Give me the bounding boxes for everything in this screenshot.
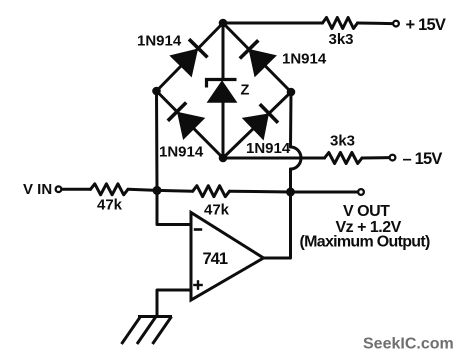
node L junction dot (bridge left) <box>152 87 161 96</box>
wire zener branch bottom (zener triangle to B) <box>222 101 225 158</box>
svg-text:(Maximum Output): (Maximum Output) <box>300 234 430 251</box>
wire R2 to -15V terminal <box>362 156 389 159</box>
svg-text:– 15V: – 15V <box>403 150 443 168</box>
diode D4 cathode bar <box>260 104 278 123</box>
wire left node L down to node J1 <box>155 91 159 190</box>
diode D4 1N914 (bottom-right) triangle <box>244 115 268 139</box>
zener diode Z triangle <box>208 82 236 103</box>
terminal V IN open circle <box>56 186 62 192</box>
wire zener branch top (T down to zener bar) <box>222 23 225 79</box>
svg-text:1N914: 1N914 <box>137 33 182 50</box>
svg-text:3k3: 3k3 <box>330 133 355 150</box>
svg-text:SeekIC.com: SeekIC.com <box>363 336 454 353</box>
wire node J2 to V OUT terminal <box>291 191 358 194</box>
terminal +15V open circle <box>393 21 399 27</box>
diode D3 1N914 (bottom-left) triangle <box>178 113 203 138</box>
wire V IN to 47k <box>62 188 91 191</box>
svg-text:+ 15V: + 15V <box>406 16 446 34</box>
wire bridge edge L-B <box>157 91 224 158</box>
wire R1 to +15V terminal <box>358 22 393 26</box>
wire hop (crossover bump over B-to-R2 wire) <box>291 147 302 169</box>
wire node J1 to R4 <box>157 189 193 193</box>
node R junction dot (bridge right) <box>287 88 296 97</box>
svg-text:1N914: 1N914 <box>159 144 204 161</box>
diode D3 cathode bar <box>168 103 186 121</box>
wire op-amp output to node J2 (up) <box>264 192 291 258</box>
node B junction dot (bridge bottom) <box>219 154 228 163</box>
terminal V OUT open circle <box>358 189 364 195</box>
zener cathode bar with bent end <box>207 80 237 88</box>
diode D1 1N914 (top-left) triangle <box>171 50 197 76</box>
wire R4 to node J2 <box>230 190 291 194</box>
resistor R2 3k3 (to -15V) <box>325 153 363 164</box>
wire bottom node to 3k3 (passes under hop) <box>223 157 325 160</box>
svg-text:1N914: 1N914 <box>246 140 291 157</box>
wire op-amp non-inverting input to ground <box>157 290 191 317</box>
wire hop top up to right node R <box>289 92 293 147</box>
resistor R1 3k3 (top, to +15V) <box>323 18 358 29</box>
wire J2 up to hop start <box>289 169 292 192</box>
wire J1 down and to op-amp inverting input <box>157 190 191 224</box>
svg-text:V OUT: V OUT <box>343 203 390 220</box>
wire top rail: top node to 3k3 <box>223 22 323 25</box>
op-amp U1 741 triangle <box>191 213 264 301</box>
diode D2 cathode bar <box>240 40 258 58</box>
node J2 junction dot (output node) <box>286 188 295 197</box>
diode D2 1N914 (top-right) triangle <box>250 50 275 75</box>
wire R3 to node J1 <box>128 189 157 190</box>
diode D1 cathode bar <box>189 39 208 57</box>
node T junction dot (bridge top) <box>219 19 228 28</box>
wire bridge edge R-B <box>223 92 291 158</box>
svg-text:V IN: V IN <box>23 181 52 198</box>
terminal -15V open circle <box>390 155 396 161</box>
svg-text:1N914: 1N914 <box>282 51 327 68</box>
wire bridge edge T-R <box>223 23 291 92</box>
svg-text:Z: Z <box>241 83 250 99</box>
op-amp inverting input minus sign <box>194 228 202 231</box>
svg-text:3k3: 3k3 <box>329 31 354 48</box>
resistor R4 47k (feedback) <box>193 186 230 197</box>
resistor R3 47k (input) <box>91 184 129 195</box>
wire bridge edge T-L <box>157 23 224 91</box>
op-amp non-inverting input plus sign <box>193 280 203 290</box>
svg-text:47k: 47k <box>97 197 123 214</box>
svg-text:47k: 47k <box>204 202 230 219</box>
node J1 junction dot (input node) <box>153 186 162 195</box>
svg-text:741: 741 <box>203 250 228 268</box>
ground symbol <box>122 317 173 345</box>
